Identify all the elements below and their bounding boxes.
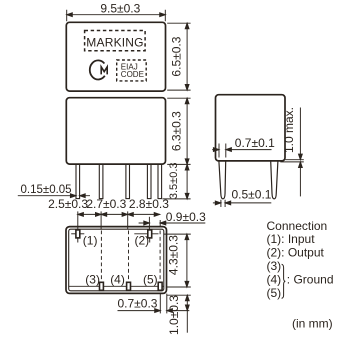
dimension 0.7±0.1 lines: [212, 149, 271, 151]
dimension 3.5±0.3 extension line: [163, 198, 191, 200]
pin 5 hidden line: [159, 231, 161, 282]
pin 1 stub: [77, 238, 79, 243]
svg-text:(1): (1): [83, 233, 98, 247]
dimension 0.7±0.3 line: [118, 310, 190, 312]
front view pin 5: [158, 164, 162, 199]
svg-text:0.7±0.3: 0.7±0.3: [118, 296, 158, 310]
0.7±0.1 extension ticks: [219, 144, 226, 158]
svg-text:4.3±0.3: 4.3±0.3: [166, 235, 180, 275]
dimension 6.5±0.3 extension lines: [167, 23, 190, 90]
svg-text:CODE: CODE: [121, 70, 144, 79]
1.0 max. extension lines: [280, 160, 304, 162]
svg-text:0.9±0.3: 0.9±0.3: [166, 210, 206, 224]
dimension 4.3±0.3 line: [186, 234, 188, 287]
svg-text:(2): (2): [135, 233, 150, 247]
marking area dashed box: [85, 31, 146, 51]
pin 3 hidden line: [100, 231, 102, 282]
front view pin 3: [126, 164, 130, 199]
svg-text:6.5±0.3: 6.5±0.3: [170, 36, 184, 76]
svg-text:2.5±0.3: 2.5±0.3: [48, 197, 88, 211]
pin 3 extension line: [100, 211, 102, 229]
dimension 0.9±0.3 line: [139, 222, 206, 224]
svg-text:0.5±0.1: 0.5±0.1: [232, 187, 272, 201]
svg-text:(in mm): (in mm): [292, 316, 333, 330]
svg-text:9.5±0.3: 9.5±0.3: [100, 1, 140, 15]
body edge extension line: [167, 294, 191, 296]
dimension 1.0 max. line upper: [299, 108, 301, 160]
svg-text:0.15±0.05: 0.15±0.05: [21, 184, 72, 196]
dimension 9.5±0.3 line: [67, 14, 166, 16]
ground brace: [282, 264, 286, 298]
svg-text:(3): (3): [85, 273, 100, 287]
svg-text:(4): (4): [267, 272, 282, 286]
svg-text:MARKING: MARKING: [86, 35, 143, 49]
pin 2 extension line: [148, 217, 150, 236]
dimension 6.3±0.3 extension lines: [167, 98, 190, 164]
svg-text:: Ground: : Ground: [287, 272, 334, 286]
pin 4 extension line: [127, 211, 129, 229]
pin 1 extension line: [77, 211, 79, 236]
pin 2 seat line: [134, 233, 158, 235]
svg-text:(4): (4): [110, 273, 125, 287]
pin 4 hidden line: [128, 231, 130, 282]
bottom view outer body: [66, 227, 167, 294]
side view body: [216, 95, 286, 161]
Murata logo M: [101, 67, 107, 75]
dimension 9.5±0.3 extension lines: [67, 10, 166, 21]
EIAJ code dashed box: [117, 60, 147, 81]
front view pin 4: [147, 164, 151, 199]
svg-text:3.5±0.3: 3.5±0.3: [168, 162, 180, 199]
svg-text:1.0±0.3: 1.0±0.3: [167, 295, 181, 335]
bottom view inner wall: [69, 229, 164, 291]
front view pin 2: [99, 164, 103, 199]
front view pin 1: [76, 164, 80, 199]
dimension 0.5±0.1 lines: [213, 202, 271, 204]
pin 5 extension tick: [159, 220, 161, 227]
bottom view pin 5: [158, 282, 162, 290]
bottom view pin 3: [100, 282, 104, 290]
bottom pins seat line: [69, 285, 164, 287]
svg-text:0.7±0.1: 0.7±0.1: [235, 136, 275, 150]
side view right leg: [271, 161, 278, 199]
svg-text:1.0 max.: 1.0 max.: [282, 107, 296, 153]
dimension 6.3±0.3 line: [186, 98, 188, 164]
pitch dimension line: [78, 213, 160, 215]
pin 1 seat line: [71, 233, 84, 235]
bottom view pin 1: [76, 230, 80, 238]
dimension 1.0±0.3 line: [186, 295, 188, 333]
front view body: [66, 98, 165, 164]
svg-text:(3): (3): [267, 259, 282, 273]
dimension 1.0 max. line lower: [299, 162, 301, 197]
bottom view pin 2: [148, 230, 152, 238]
dimension 3.5±0.3 line: [186, 164, 188, 199]
dimension 4.3±0.3 extension lines: [164, 234, 191, 287]
svg-text:Connection: Connection: [267, 219, 328, 233]
svg-text:(5): (5): [143, 273, 158, 287]
Murata logo C arc: [90, 60, 105, 79]
svg-text:(2): Output: (2): Output: [267, 246, 325, 260]
svg-text:(5): (5): [267, 286, 282, 300]
svg-text:2.7±0.3: 2.7±0.3: [86, 197, 126, 211]
body corner extension line down: [166, 294, 168, 314]
pin 5 extension line down: [159, 294, 161, 314]
bottom view pin 4: [127, 282, 131, 290]
svg-text:6.3±0.3: 6.3±0.3: [170, 111, 184, 151]
svg-text:2.8±0.3: 2.8±0.3: [129, 197, 169, 211]
svg-text:(1): Input: (1): Input: [267, 232, 316, 246]
dimension 6.5±0.3 line: [186, 23, 188, 90]
side view left leg: [219, 161, 226, 199]
0.5±0.1 extension ticks: [221, 200, 225, 207]
top view body: [66, 22, 165, 91]
pin 2 stub: [149, 238, 151, 243]
dimension 0.15±0.05 leader lines: [18, 195, 90, 197]
